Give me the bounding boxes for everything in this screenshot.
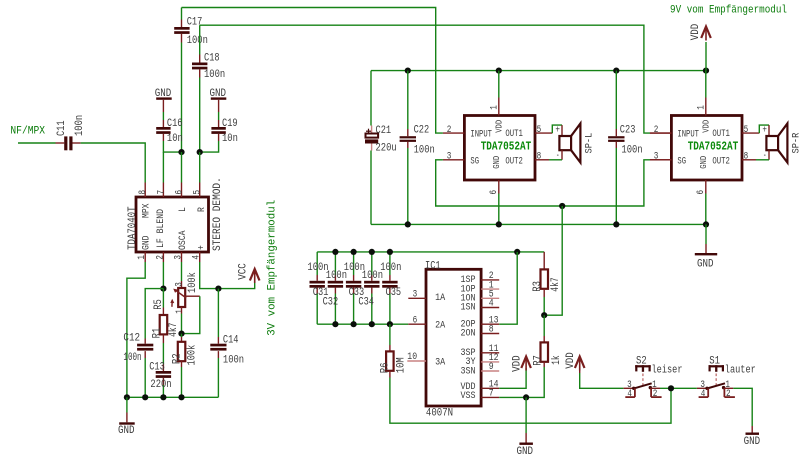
junction rail/amp-L pin1 (496, 68, 502, 74)
pin 4 hook (707, 388, 709, 397)
contact arm (632, 387, 635, 390)
svg-text:TDA7052AT: TDA7052AT (481, 139, 532, 153)
svg-text:SP-R: SP-R (792, 133, 800, 154)
svg-text:100n: 100n (380, 262, 401, 274)
pin 7 lead (162, 183, 164, 198)
svg-text:4: 4 (192, 255, 203, 260)
pin 1 lead (VDD) (705, 98, 707, 116)
wire pin14 to VDD arrow (499, 368, 526, 388)
svg-text:4k7: 4k7 (550, 277, 562, 291)
svg-text:C13: C13 (149, 361, 165, 373)
capacitor C23 100n (615, 71, 617, 129)
capacitor C12 (144, 339, 146, 344)
wire SG junction down to R3/R7 node (544, 206, 562, 315)
pin 6 lead (2A) (408, 323, 426, 325)
switch S2 (leiser) (635, 365, 651, 367)
wire junction to pin 5 (199, 152, 201, 182)
svg-text:OUT2: OUT2 (712, 157, 730, 168)
svg-text:3: 3 (175, 282, 186, 287)
capacitor C31 100n (316, 252, 318, 275)
capacitor C11 (56, 142, 65, 144)
pin 11 lead (481, 352, 499, 354)
pin 6 lead (GND) (705, 180, 707, 194)
junction pin2/R5/C12 (160, 286, 166, 292)
trimmer potentiometer R1 100k (181, 281, 183, 288)
wire C11 to pin 8 of TDA7040T (81, 143, 146, 183)
svg-text:100n: 100n (204, 69, 225, 81)
svg-text:C21: C21 (376, 125, 392, 137)
svg-text:R2: R2 (172, 353, 184, 364)
pin 5 lead (OUT1) (535, 132, 552, 134)
wire pin13 to output rail (499, 252, 517, 324)
capacitor C17 (181, 8, 183, 20)
svg-text:L: L (178, 207, 189, 212)
pin 7 lead (481, 396, 499, 398)
resistor R2 100k (181, 334, 183, 337)
svg-text:-: - (763, 151, 767, 162)
svg-text:1: 1 (490, 105, 501, 110)
svg-text:8: 8 (489, 325, 494, 336)
svg-text:TDA7052AT: TDA7052AT (688, 139, 739, 153)
svg-text:C34: C34 (358, 297, 374, 309)
pin 14 lead (481, 387, 499, 389)
svg-text:5: 5 (744, 125, 749, 136)
svg-text:R1: R1 (152, 327, 164, 338)
junction C18/C19/pin5 (197, 149, 203, 155)
wire C17-bottom down to junction (181, 43, 183, 153)
wire net C17-top along top (to left amp input) (182, 8, 443, 134)
svg-text:SG: SG (470, 157, 479, 168)
svg-text:R7: R7 (532, 355, 544, 366)
IC1 4007N CMOS box (426, 269, 481, 406)
svg-text:1A: 1A (435, 293, 445, 304)
pin 2 lead (481, 279, 499, 281)
svg-text:2: 2 (447, 125, 452, 136)
svg-text:2: 2 (653, 389, 658, 400)
svg-text:3V vom Empfängermodul: 3V vom Empfängermodul (267, 200, 279, 336)
wire R6 bottom to switch junction (390, 378, 671, 424)
speaker minus wire (561, 150, 563, 160)
pin 2 lead (INPUT) (650, 132, 672, 134)
wire pin2 to R5 node (162, 262, 164, 289)
svg-text:2A: 2A (435, 321, 445, 332)
svg-text:GND: GND (744, 436, 761, 448)
speaker SP-L (552, 125, 562, 133)
pin 4 lead (481, 307, 499, 309)
svg-text:10n: 10n (167, 133, 183, 145)
svg-text:10: 10 (407, 352, 417, 363)
wire pin7 VSS to ground and R7 (499, 367, 544, 397)
svg-text:8: 8 (744, 151, 749, 162)
junction VSS/GND (523, 394, 529, 400)
pin 3 lead (181, 252, 183, 262)
wire pin4 to VCC and C14 (200, 262, 255, 289)
wire trimmer bottom to junction (181, 314, 183, 334)
pin 2 hook (723, 388, 725, 397)
svg-text:100n: 100n (223, 355, 244, 367)
wire pin3 to trimmer R1 (181, 262, 183, 281)
ground symbol bottom left (126, 397, 128, 412)
capacitor C18 (199, 25, 201, 54)
svg-text:5: 5 (193, 190, 204, 195)
pin 5 lead (481, 297, 499, 299)
svg-text:C32: C32 (323, 297, 339, 309)
svg-text:SP-L: SP-L (585, 133, 596, 154)
pin 1 lead (144, 252, 146, 262)
speaker SP-R (759, 125, 769, 133)
svg-text:GND: GND (118, 425, 135, 437)
pin 6 lead (181, 183, 183, 198)
svg-text:100n: 100n (414, 145, 435, 157)
contact arm (705, 387, 708, 390)
pin 12 lead (481, 361, 499, 363)
svg-text:OUT1: OUT1 (712, 129, 730, 140)
svg-text:S1: S1 (709, 355, 720, 367)
svg-text:GND: GND (697, 259, 714, 271)
svg-text:1: 1 (175, 309, 186, 314)
wire VDD to S2 pin3 (580, 373, 624, 388)
junction switches to R6 line (668, 385, 674, 391)
svg-text:220n: 220n (150, 379, 171, 391)
svg-text:OSCA: OSCA (178, 231, 189, 251)
audio amplifier IC TDA7052AT (SP-R channel) (671, 116, 742, 181)
pin 2 lead (INPUT) (443, 132, 465, 134)
svg-text:C11: C11 (56, 120, 68, 136)
wire input rail (2A net) (317, 323, 408, 325)
pin 10 lead (3A) (407, 360, 426, 362)
wire S2 pin1 to S1 pin3 (660, 387, 697, 389)
svg-text:3SN: 3SN (461, 366, 476, 377)
svg-text:VSS: VSS (461, 391, 476, 402)
resistor R7 1k (543, 315, 545, 336)
wire junction to C12 (145, 289, 163, 339)
svg-text:100k: 100k (187, 272, 199, 293)
svg-text:VDD: VDD (565, 352, 577, 369)
svg-text:C12: C12 (123, 332, 140, 344)
svg-text:10M: 10M (395, 357, 407, 373)
svg-text:1: 1 (697, 105, 708, 110)
svg-text:7: 7 (489, 389, 494, 400)
pin 8 lead (481, 333, 499, 335)
wire output rail (2OP net) (317, 251, 544, 253)
wire C16 to junction and pin 7 (163, 141, 181, 152)
svg-text:3: 3 (447, 151, 452, 162)
ground rail bottom left (127, 396, 218, 398)
speaker minus wire (768, 150, 770, 160)
svg-text:100n: 100n (621, 144, 642, 156)
svg-text:220u: 220u (376, 143, 397, 155)
svg-text:C18: C18 (204, 52, 220, 64)
svg-text:3: 3 (173, 255, 184, 260)
junction C17/C16/pin6 (178, 149, 184, 155)
wire right amp pin3 lead (650, 159, 671, 161)
pin 8 lead (OUT2) (535, 159, 549, 161)
ground symbol below right amp (705, 224, 707, 244)
svg-text:TDA7040T: TDA7040T (127, 206, 139, 250)
svg-text:3A: 3A (435, 357, 445, 368)
svg-text:STEREO DEMOD.: STEREO DEMOD. (212, 177, 224, 251)
pin 9 lead (481, 370, 499, 372)
pin 1 lead (650, 387, 660, 389)
resistor R5 4k7 (162, 289, 164, 308)
supply rail 9V (371, 70, 706, 72)
svg-text:1SN: 1SN (461, 303, 476, 314)
pin 3 lead (SG) (650, 159, 672, 161)
pin 6 lead (GND) (498, 180, 500, 194)
pin 3 lead (1A) (408, 297, 426, 299)
supply arrow VDD 9V (705, 42, 707, 71)
junction trimmer/R2 (178, 331, 184, 337)
svg-text:10n: 10n (222, 133, 238, 145)
svg-text:R6: R6 (380, 363, 392, 374)
pin 5 lead (OUT1) (742, 132, 759, 134)
pin 8 lead (OUT2) (742, 159, 756, 161)
svg-text:4: 4 (489, 299, 494, 310)
svg-text:NF/MPX: NF/MPX (10, 126, 45, 138)
svg-text:100n: 100n (362, 270, 383, 282)
wire C19 to junction and pin 5 (200, 141, 219, 152)
ground symbol below IC1 (525, 397, 527, 433)
capacitor C35 100n (389, 252, 391, 275)
pin 5 lead (199, 183, 201, 198)
svg-text:C22: C22 (414, 124, 430, 136)
svg-text:OUT1: OUT1 (505, 129, 523, 140)
pin 8 lead (144, 183, 146, 198)
svg-text:VDD: VDD (511, 355, 523, 372)
svg-text:C14: C14 (223, 335, 239, 347)
svg-text:lauter: lauter (725, 365, 756, 377)
pin 1 lead (481, 288, 499, 290)
svg-text:2ON: 2ON (461, 329, 476, 340)
svg-text:5: 5 (537, 125, 542, 136)
svg-text:6: 6 (413, 315, 418, 326)
svg-text:2: 2 (654, 125, 659, 136)
pin 1 lead (724, 387, 734, 389)
svg-text:S2: S2 (636, 355, 647, 367)
svg-text:R5: R5 (153, 299, 165, 310)
svg-text:1: 1 (137, 255, 148, 260)
ground symbol right of S1 (751, 426, 753, 433)
svg-text:LF BLEND: LF BLEND (156, 209, 167, 248)
supply arrow VCC (250, 269, 260, 281)
svg-text:4k7: 4k7 (168, 323, 180, 337)
svg-text:R: R (197, 207, 208, 212)
svg-text:GND: GND (492, 156, 502, 169)
pin 2 hook (650, 388, 652, 397)
ground rail below amps (371, 223, 706, 225)
svg-text:2: 2 (726, 389, 731, 400)
junction R3/R7/SG branch (541, 312, 547, 318)
junction rail/VDD arrow (703, 68, 709, 74)
svg-text:leiser: leiser (652, 365, 683, 377)
switch S1 (lauter) (709, 365, 725, 367)
supply arrow VDD (switch feed) (575, 357, 585, 369)
svg-text:R3: R3 (532, 281, 544, 292)
wire NF/MPX to C11 (18, 142, 56, 144)
wire trimmer wiper loop (185, 295, 200, 297)
junction rail/C23 (613, 68, 619, 74)
svg-text:GND: GND (142, 236, 153, 251)
svg-text:100n: 100n (74, 115, 86, 136)
svg-text:7: 7 (156, 190, 167, 195)
supply arrow VDD (IC1) (521, 357, 531, 369)
svg-text:6: 6 (174, 190, 185, 195)
svg-text:C16: C16 (167, 118, 183, 130)
resistor R3 4k7 (541, 269, 549, 288)
wire net C18-top along top (to right amp input) (200, 25, 650, 133)
svg-text:9: 9 (489, 362, 494, 373)
svg-text:3: 3 (654, 151, 659, 162)
svg-text:+: + (197, 245, 208, 250)
svg-text:VDD: VDD (701, 120, 711, 133)
capacitor C33 100n (353, 252, 355, 275)
capacitor C21 220u polarized (370, 71, 372, 126)
pin 3 lead (624, 387, 634, 389)
svg-text:2: 2 (155, 255, 166, 260)
pin 3 lead (SG) (443, 159, 465, 161)
svg-text:IC1: IC1 (425, 260, 441, 272)
svg-text:1k: 1k (551, 355, 563, 365)
svg-text:VCC: VCC (238, 263, 250, 280)
svg-text:VDD: VDD (690, 23, 702, 40)
svg-text:C19: C19 (222, 118, 238, 130)
svg-text:GND: GND (699, 156, 709, 169)
capacitor C22 100n (407, 71, 409, 129)
wire pin1 to ground rail (127, 262, 145, 397)
svg-text:GND: GND (517, 446, 534, 458)
svg-text:C23: C23 (620, 125, 636, 137)
pin 1 lead (VDD) (498, 98, 500, 116)
svg-text:100n: 100n (187, 35, 208, 47)
audio amplifier IC TDA7052AT (SP-L channel) (464, 116, 535, 181)
svg-text:SG: SG (677, 157, 686, 168)
capacitor C13 (162, 343, 164, 364)
svg-text:3: 3 (413, 290, 418, 301)
wire SG net left amp (436, 160, 650, 206)
pin 4 lead (199, 252, 201, 262)
wire right amp pin2 lead green part (650, 132, 671, 134)
svg-text:8: 8 (138, 190, 149, 195)
resistor R6 10M (389, 324, 391, 345)
capacitor C16 (162, 112, 164, 120)
svg-text:MPX: MPX (142, 204, 153, 219)
svg-text:4007N: 4007N (426, 407, 453, 419)
pin 4 hook (634, 388, 636, 397)
wire junction to pin 6 (181, 152, 183, 182)
svg-text:100k: 100k (187, 344, 199, 365)
capacitor C32 100n (334, 252, 336, 275)
svg-text:100n: 100n (123, 352, 141, 364)
junction SG line to volume divider (559, 203, 565, 209)
svg-text:OUT2: OUT2 (505, 157, 523, 168)
wire S1 pin1 to ground (733, 388, 752, 426)
svg-text:9V vom Empfängermodul: 9V vom Empfängermodul (670, 4, 787, 16)
svg-text:100n: 100n (326, 270, 347, 282)
wire C18-bottom down to junction (199, 78, 201, 153)
op-amp/IC TDA7040T stereo demodulator (136, 197, 209, 252)
junction output rail to R3 feed (514, 249, 520, 255)
junction pin4/C14 (215, 286, 221, 292)
svg-text:8: 8 (537, 151, 542, 162)
svg-text:4: 4 (701, 389, 706, 400)
svg-text:4: 4 (627, 389, 632, 400)
pin 2 lead (162, 252, 164, 262)
svg-text:VDD: VDD (494, 120, 504, 133)
pin 3 lead (697, 387, 707, 389)
wire output rail right end to R3 (543, 252, 545, 270)
pin 13 lead (481, 323, 499, 325)
svg-text:C35: C35 (386, 287, 402, 299)
capacitor C14 (217, 289, 219, 337)
capacitor C19 (218, 112, 220, 120)
junction rail/C22 (405, 68, 411, 74)
capacitor C34 100n (371, 252, 373, 275)
svg-text:-: - (556, 151, 560, 162)
